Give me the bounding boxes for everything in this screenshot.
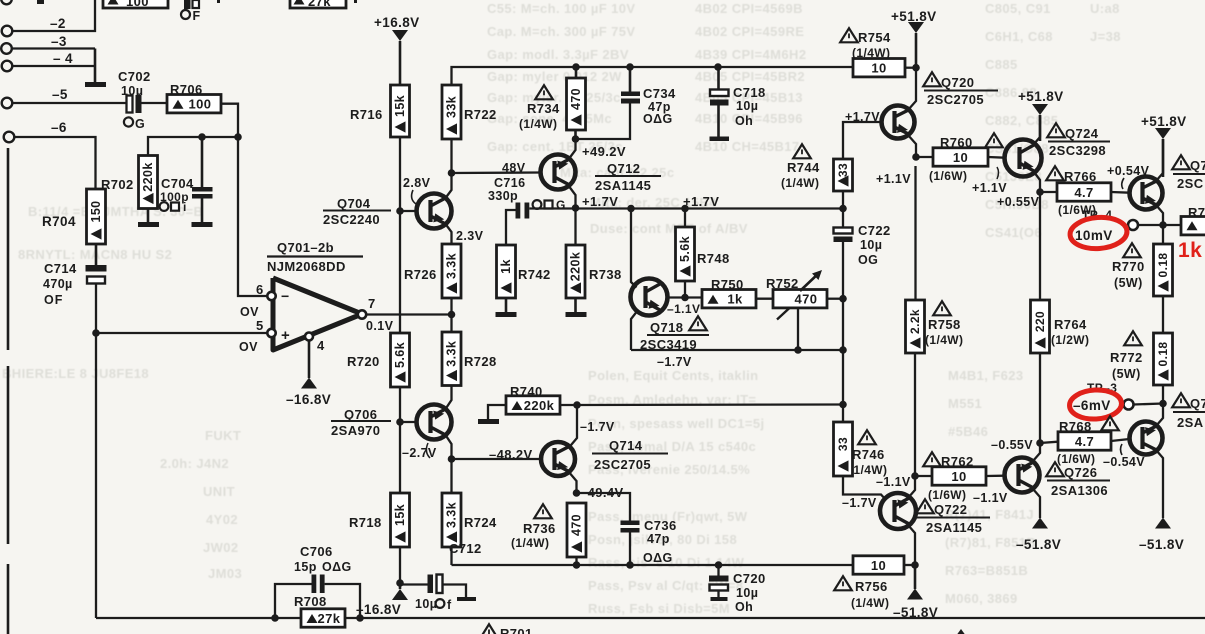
svg-text:5.6k: 5.6k — [678, 236, 692, 262]
transistor Q722 2SA1145 — [916, 499, 934, 513]
svg-text:(1/6W): (1/6W) — [929, 169, 967, 183]
wire -48.2V node to Q714 base — [452, 458, 542, 460]
svg-text:33: 33 — [836, 163, 850, 177]
svg-text:NJM2068DD: NJM2068DD — [267, 259, 346, 274]
svg-text:2SC3298: 2SC3298 — [1049, 143, 1106, 158]
svg-text:Polen, Equit Cents, itaklin: Polen, Equit Cents, itaklin — [588, 368, 758, 383]
svg-text:OV: OV — [239, 340, 258, 354]
red circle around 10mV — [1069, 216, 1128, 251]
svg-text:+0.55V: +0.55V — [997, 195, 1040, 209]
wire C716 left to R742 — [506, 210, 516, 245]
svg-text:BHIERE:LE 8 JU8FE18: BHIERE:LE 8 JU8FE18 — [2, 366, 149, 381]
svg-text:4B02 CPI=459RE: 4B02 CPI=459RE — [695, 24, 804, 39]
svg-text:C702: C702 — [118, 69, 151, 84]
svg-text:OG: OG — [858, 253, 878, 267]
wire Q724 collector — [1034, 115, 1040, 144]
svg-text:R720: R720 — [347, 354, 380, 369]
svg-text:–3: –3 — [51, 34, 67, 49]
svg-text:Gap: myler 0.012 2W: Gap: myler 0.012 2W — [487, 69, 622, 84]
svg-text:48V: 48V — [502, 161, 526, 175]
svg-text:0.1V: 0.1V — [366, 319, 394, 333]
svg-text:C736: C736 — [644, 518, 677, 533]
wire Q714 emitter to -49.4V node — [568, 471, 577, 493]
power -51.8V (right output) — [1155, 518, 1171, 529]
svg-text:C716: C716 — [494, 176, 525, 190]
svg-text:#5B46: #5B46 — [948, 424, 988, 439]
svg-text:UNIT: UNIT — [203, 484, 235, 499]
svg-text:10: 10 — [951, 469, 966, 484]
R752 lower tick — [777, 308, 790, 320]
svg-text:+: + — [281, 327, 290, 344]
transistor Q724 2SC3298 — [1047, 123, 1065, 137]
svg-text:10: 10 — [871, 558, 886, 573]
svg-text:+51.8V: +51.8V — [1141, 114, 1187, 129]
svg-text:1k: 1k — [727, 292, 743, 307]
resistor R772 0.18 (5W) — [1124, 331, 1142, 345]
svg-text:2.3V: 2.3V — [456, 229, 484, 243]
svg-text:C706: C706 — [300, 544, 333, 559]
svg-text:+1.1V: +1.1V — [972, 181, 1007, 195]
power -51.8V (R756/Q722) — [914, 565, 917, 589]
svg-text:4Y02: 4Y02 — [206, 512, 238, 527]
wire Q722 emitter to R756 node — [908, 525, 915, 565]
wire output emitter to TP-4 node — [1156, 205, 1163, 225]
svg-text:10µ: 10µ — [415, 597, 437, 611]
svg-text:2SA970: 2SA970 — [331, 423, 380, 438]
svg-text:+1.7V: +1.7V — [683, 194, 719, 209]
svg-text:470: 470 — [795, 292, 818, 307]
wire node down to Q714 collector — [569, 405, 578, 448]
partial resistor box at top edge (value 100) — [103, 0, 168, 8]
svg-text:i: i — [183, 200, 187, 214]
svg-text:R742: R742 — [518, 267, 551, 282]
svg-text:100: 100 — [126, 0, 149, 9]
wire -3 — [12, 47, 95, 49]
svg-text:470: 470 — [569, 88, 583, 110]
resistor 470 R736 (bottom) — [567, 503, 586, 557]
svg-text:Q722: Q722 — [934, 502, 967, 517]
wire -3/-4 to ground — [94, 49, 97, 83]
wire Q704 collector to node 173 — [446, 139, 452, 198]
rail -51.8V feed y=565 — [452, 564, 854, 566]
svg-text:(1/6W): (1/6W) — [928, 488, 966, 502]
svg-text:Q706: Q706 — [344, 407, 377, 422]
ground under C704 — [201, 199, 204, 223]
supply rail y=67 to R754 — [576, 66, 853, 68]
svg-text:4B02 CPI=4569B: 4B02 CPI=4569B — [695, 1, 803, 16]
svg-text:(5W): (5W) — [1114, 276, 1143, 290]
wire R750 to R752 — [756, 298, 773, 300]
red circle around -6mV — [1069, 389, 1122, 421]
C716 mark O-square-G — [533, 200, 542, 209]
svg-text:3.3k: 3.3k — [444, 253, 458, 279]
wire R772 to TP-3 node — [1162, 385, 1164, 404]
svg-text:10mV: 10mV — [1075, 228, 1113, 243]
stray wire stub top edge b — [354, 0, 357, 3]
wire node to C734 bottom — [576, 104, 631, 140]
partial capacitor at top edge with OF mark — [184, 0, 191, 9]
svg-text:2SA1306: 2SA1306 — [1051, 483, 1108, 498]
svg-text:C722: C722 — [858, 223, 891, 238]
svg-text:(1/2W): (1/2W) — [1051, 333, 1089, 347]
svg-text:2SA1145: 2SA1145 — [595, 178, 651, 193]
svg-text:C885: C885 — [985, 57, 1018, 72]
wire pin5 from feedback rail — [96, 332, 268, 334]
svg-text:–16.8V: –16.8V — [356, 602, 401, 617]
resistor R770 0.18 (5W) — [1123, 243, 1141, 257]
wire -2 to top edge — [12, 0, 95, 31]
wire R752 right to C722 node — [827, 298, 843, 300]
wire R764 column from +0.55V node — [1039, 192, 1041, 300]
svg-text:R763=B851B: R763=B851B — [945, 563, 1028, 578]
svg-text:2SA: 2SA — [1177, 415, 1204, 430]
wire 470 top to rail — [575, 67, 578, 78]
capacitor C736 47p — [621, 521, 640, 526]
page border (dashed left edge) — [7, 148, 10, 350]
svg-text:OF: OF — [44, 293, 63, 307]
svg-text:150: 150 — [89, 200, 103, 222]
svg-text:R738: R738 — [589, 267, 622, 282]
svg-text:+1.7V: +1.7V — [845, 110, 880, 124]
svg-text:R734: R734 — [527, 101, 560, 116]
svg-text:–5: –5 — [52, 87, 68, 102]
resistor R744 33 — [793, 144, 811, 158]
svg-text:Russ, Fsb si Disb=5M: Russ, Fsb si Disb=5M — [588, 601, 730, 616]
wire -5 to C702 — [12, 102, 126, 104]
wire R770 to R772 — [1162, 296, 1164, 333]
svg-text:33: 33 — [836, 437, 850, 451]
svg-text:Q726: Q726 — [1064, 465, 1097, 480]
svg-text:3.3k: 3.3k — [444, 502, 458, 528]
svg-text:R772: R772 — [1110, 350, 1143, 365]
wire C712 right to tick — [443, 585, 467, 598]
svg-text:1k: 1k — [1178, 239, 1202, 262]
svg-text:27k: 27k — [308, 0, 331, 9]
svg-text:R701: R701 — [500, 626, 533, 634]
svg-text:OΔG: OΔG — [643, 112, 673, 126]
transistor Q726 2SA1306 — [1046, 462, 1064, 476]
svg-text:Gap: modl. 3.3µF 2BV: Gap: modl. 3.3µF 2BV — [487, 47, 629, 62]
svg-text:15p: 15p — [294, 560, 317, 574]
svg-text:Duse: cont MSE of A/BV: Duse: cont MSE of A/BV — [590, 221, 748, 236]
svg-text:C712: C712 — [449, 541, 482, 556]
svg-text:15k: 15k — [393, 95, 407, 117]
wire Q706/R724 node down — [399, 422, 401, 493]
svg-text:OΔG: OΔG — [643, 551, 673, 565]
svg-text:C720: C720 — [733, 571, 766, 586]
wire C702 to R706 — [142, 102, 168, 104]
svg-text:2SC2705: 2SC2705 — [927, 92, 984, 107]
svg-text:+1.7V: +1.7V — [582, 194, 618, 209]
capacitor C714 470u — [95, 244, 98, 265]
svg-text:5: 5 — [256, 318, 264, 333]
wire R744 top to Q720 base — [843, 122, 881, 159]
terminal -2 — [2, 26, 13, 37]
svg-text:G: G — [556, 198, 566, 212]
ground under R738 — [574, 298, 577, 312]
svg-text:4.7: 4.7 — [1075, 434, 1094, 449]
svg-text:2SC2705: 2SC2705 — [594, 457, 651, 472]
svg-text:(1/4W): (1/4W) — [519, 117, 557, 131]
svg-text:Q7: Q7 — [1190, 158, 1205, 173]
svg-text:–1.1V: –1.1V — [876, 475, 911, 489]
svg-text:R704: R704 — [42, 214, 76, 229]
svg-text:Q724: Q724 — [1065, 126, 1099, 141]
wire R726 bottom to output node — [450, 298, 452, 315]
op-amp pin 7 output — [358, 310, 366, 318]
wire Q704 base — [400, 210, 417, 212]
svg-text:OV: OV — [240, 305, 259, 319]
partial label R701 at bottom edge — [480, 624, 498, 634]
svg-text:– 4: – 4 — [53, 51, 73, 66]
svg-text:C714: C714 — [44, 261, 77, 276]
svg-text:10µ: 10µ — [736, 99, 758, 113]
resistor R762 10 — [923, 452, 941, 466]
wire R766 right to output transistor base — [1111, 191, 1130, 194]
svg-text:R758: R758 — [928, 317, 961, 332]
wire C736 bottom to supply rail — [629, 533, 631, 566]
wire R746 top — [842, 405, 844, 423]
stray mark top-left — [37, 0, 44, 4]
svg-text:R724: R724 — [464, 515, 497, 530]
svg-text:Cap. M=ch. 300 µF 75V: Cap. M=ch. 300 µF 75V — [487, 24, 635, 39]
svg-text:2.8V: 2.8V — [403, 176, 431, 190]
svg-text:0.18: 0.18 — [1156, 253, 1170, 278]
svg-text:C805, C91: C805, C91 — [985, 1, 1051, 16]
ground (input common) — [85, 82, 106, 87]
wire Q718 emitter to R750 — [668, 296, 703, 298]
wire R752 wiper bottom to rail — [797, 308, 799, 351]
svg-text:F: F — [193, 9, 201, 23]
R754 warning + label — [840, 28, 858, 42]
transistor Q720 2SC2705 — [923, 72, 941, 86]
terminal -6 — [4, 132, 15, 143]
svg-text:+16.8V: +16.8V — [374, 15, 420, 30]
wire pin4 to -16.8V — [308, 341, 311, 379]
wire TP-4 node — [1138, 224, 1163, 226]
svg-text:M551: M551 — [948, 396, 982, 411]
svg-text:4.7: 4.7 — [1074, 185, 1093, 200]
wire TP-3 node — [1134, 404, 1164, 405]
wire Q724 emitter to R766 node — [1034, 172, 1040, 192]
wire C714 to feedback rail — [95, 284, 97, 334]
op-amp pin 4 V- — [305, 333, 313, 341]
svg-text:R746: R746 — [852, 447, 885, 462]
wire 470 bottom node — [574, 130, 577, 139]
svg-text:OΔG: OΔG — [322, 560, 352, 574]
wire R758 bottom to -1.1V node — [914, 353, 916, 476]
transistor Q728 2SC (output, cut at edge) — [1172, 155, 1190, 169]
svg-text:(1/4W): (1/4W) — [851, 596, 889, 610]
svg-text:15k: 15k — [393, 504, 407, 526]
wire R768 right to bottom output base — [1111, 439, 1130, 441]
svg-text:C718: C718 — [733, 85, 766, 100]
wire -4 — [12, 65, 95, 67]
svg-text:R726: R726 — [404, 267, 437, 282]
svg-text:(1/4W): (1/4W) — [849, 463, 887, 477]
svg-text:–0.55V: –0.55V — [991, 438, 1033, 452]
wire 470 bottom to supply rail — [575, 557, 577, 565]
wire R746 bottom to Q722 base — [843, 476, 886, 500]
svg-text:C704: C704 — [161, 176, 194, 191]
wire R764 bottom to -0.55V node — [1039, 353, 1041, 443]
ground under R702 — [147, 209, 150, 223]
svg-text:R748: R748 — [697, 251, 730, 266]
svg-text:Q712: Q712 — [607, 161, 640, 176]
svg-text:Q720: Q720 — [941, 75, 974, 90]
svg-text:2.0h: J4N2: 2.0h: J4N2 — [160, 456, 229, 471]
svg-text:5.6k: 5.6k — [393, 342, 407, 368]
ground left of R740 — [488, 405, 506, 419]
svg-text:−: − — [281, 288, 290, 304]
resistor R756 10 — [853, 556, 904, 574]
resistor 470 R734 (top) — [567, 78, 586, 130]
svg-text:6: 6 — [256, 282, 264, 297]
wire bottom output emitter to TP-3 node — [1156, 404, 1163, 427]
capacitor C720 10u — [717, 565, 719, 576]
wire Q706 top to R728 bottom — [446, 386, 452, 410]
svg-text:10: 10 — [871, 61, 886, 76]
svg-text:(1/6W): (1/6W) — [1057, 452, 1095, 466]
svg-text:G: G — [135, 117, 145, 131]
svg-text:R736: R736 — [523, 521, 556, 536]
svg-text:JM03: JM03 — [208, 566, 242, 581]
svg-text:220k: 220k — [568, 252, 582, 281]
svg-text:f: f — [447, 598, 452, 612]
terminal -1 (cut at top edge) — [1, 0, 12, 4]
svg-text:–16.8V: –16.8V — [286, 392, 331, 407]
wire Q720 emitter to R760 node — [908, 135, 916, 157]
svg-text:R718: R718 — [349, 515, 382, 530]
op-amp pin 5 non-inverting input — [267, 329, 275, 337]
svg-text:R728: R728 — [464, 354, 497, 369]
terminal -4 — [2, 61, 13, 72]
svg-text:M060, 3869: M060, 3869 — [945, 591, 1018, 606]
wire R754 to +51.8V node — [905, 67, 916, 69]
svg-text:R764: R764 — [1054, 317, 1087, 332]
svg-text:10µ: 10µ — [736, 586, 758, 600]
svg-text:U:a8: U:a8 — [1090, 1, 1120, 16]
wire R718 bottom to -16.8V node — [399, 547, 401, 583]
R752 wiper arrow — [800, 272, 820, 291]
op-amp pin 6 inverting input — [267, 292, 275, 300]
svg-text:–6: –6 — [51, 120, 67, 135]
wire R706 to op-amp inverting node — [221, 104, 268, 296]
svg-text:Oh: Oh — [735, 114, 753, 128]
svg-text:–6mV: –6mV — [1073, 398, 1111, 413]
svg-text:+49.2V: +49.2V — [582, 144, 626, 159]
svg-text:220: 220 — [1033, 311, 1047, 332]
svg-text:J=38: J=38 — [1090, 29, 1121, 44]
wire R722 top to +49V rail — [452, 67, 577, 85]
resistor R758 2.2k — [933, 301, 951, 315]
capacitor C718 10u — [717, 67, 720, 90]
wire Q722 collector to -1.1V node — [908, 476, 915, 498]
wire C722 node down to -1.7V rail and R746 — [842, 299, 844, 350]
svg-text:Oh: Oh — [735, 600, 753, 614]
svg-text:C734: C734 — [643, 86, 676, 101]
svg-text:–51.8V: –51.8V — [1139, 537, 1184, 552]
wire R766 left — [1040, 191, 1057, 193]
wire -48.2V node to R724 top — [450, 459, 452, 493]
svg-text:+51.8V: +51.8V — [1018, 89, 1064, 104]
svg-text:4B39 CPI=4M6H2: 4B39 CPI=4M6H2 — [695, 47, 806, 62]
svg-text:33k: 33k — [444, 96, 458, 118]
wire C706 branch — [275, 584, 312, 618]
svg-text:Q704: Q704 — [337, 196, 371, 211]
capacitor C722 10u — [842, 209, 844, 228]
resistor R754 10 — [853, 59, 905, 77]
wire bottom output collector to -51.8V — [1156, 450, 1163, 518]
resistor R766 4.7 — [1046, 166, 1064, 180]
svg-text:(1/4W): (1/4W) — [781, 176, 819, 190]
wire node y137 (R702/C704 tap) — [148, 137, 238, 156]
power -51.8V (Q726) — [1032, 518, 1048, 529]
svg-text:–1.7V: –1.7V — [657, 355, 692, 369]
R734 warning + label — [535, 85, 553, 99]
wire Q726 collector to -0.55V node — [1033, 443, 1040, 461]
svg-text:(1/4W): (1/4W) — [925, 333, 963, 347]
svg-text:C55: M=ch. 100 µF 10V: C55: M=ch. 100 µF 10V — [487, 1, 635, 16]
svg-text:FUKT: FUKT — [205, 428, 241, 443]
ground under R742 — [505, 298, 508, 312]
svg-text:7: 7 — [368, 296, 376, 311]
svg-text:10µ: 10µ — [860, 238, 882, 252]
left bias rail (R716 to R720, Q704/Q706 bases) — [399, 137, 401, 333]
power -16.8V (R718) — [399, 583, 402, 589]
rail y=405 to R746 column — [577, 403, 843, 406]
svg-text:+1.1V: +1.1V — [876, 172, 911, 186]
partial resistor box at top edge (value 27k) — [290, 0, 346, 8]
svg-text:4B05 CPI=45BR2: 4B05 CPI=45BR2 — [695, 69, 805, 84]
wire node to R728 top — [450, 315, 452, 333]
svg-text:470µ: 470µ — [43, 277, 73, 291]
svg-text:220k: 220k — [141, 162, 155, 191]
capacitor C734 47p — [621, 92, 640, 97]
wire R744 bottom to +1.7V rail — [842, 191, 844, 209]
wire +1.7V node to Q718 base — [631, 209, 637, 288]
wire Q706 base — [400, 421, 417, 423]
wire R758 column from +1.1V node — [914, 166, 916, 300]
svg-text:2.2k: 2.2k — [908, 309, 922, 334]
wire R724 bottom to rail — [450, 547, 452, 565]
terminal -3 — [1, 43, 12, 54]
svg-text:470: 470 — [569, 514, 583, 536]
svg-text:Q7: Q7 — [1190, 396, 1205, 411]
svg-text:2SA1145: 2SA1145 — [926, 520, 982, 535]
partial power arrow at bottom edge — [953, 629, 969, 634]
wire TP-4 node to R770 — [1162, 225, 1164, 244]
svg-text:C6H1, C68: C6H1, C68 — [985, 29, 1053, 44]
svg-text:R722: R722 — [464, 107, 497, 122]
wire R762 right to Q726 base — [986, 475, 1005, 478]
svg-text:10: 10 — [953, 150, 968, 165]
svg-text:2SC2240: 2SC2240 — [323, 212, 380, 227]
svg-text:4B10 CH=45B17: 4B10 CH=45B17 — [695, 139, 800, 154]
svg-text:R744: R744 — [787, 160, 820, 175]
svg-text:C882, C885: C882, C885 — [985, 113, 1058, 128]
svg-text:3.3k: 3.3k — [444, 341, 458, 367]
svg-text:–1.1V: –1.1V — [667, 302, 700, 316]
wire C722 bottom to R752 node — [842, 242, 844, 299]
svg-text:R770: R770 — [1112, 259, 1145, 274]
wire Q718 collector down to -1.7V rail — [631, 310, 638, 350]
svg-text:4: 4 — [317, 338, 325, 353]
svg-text:–1.7V: –1.7V — [580, 420, 615, 434]
svg-text:27k: 27k — [318, 611, 341, 626]
svg-text:2SC: 2SC — [1177, 176, 1204, 191]
svg-text:220k: 220k — [524, 398, 555, 413]
